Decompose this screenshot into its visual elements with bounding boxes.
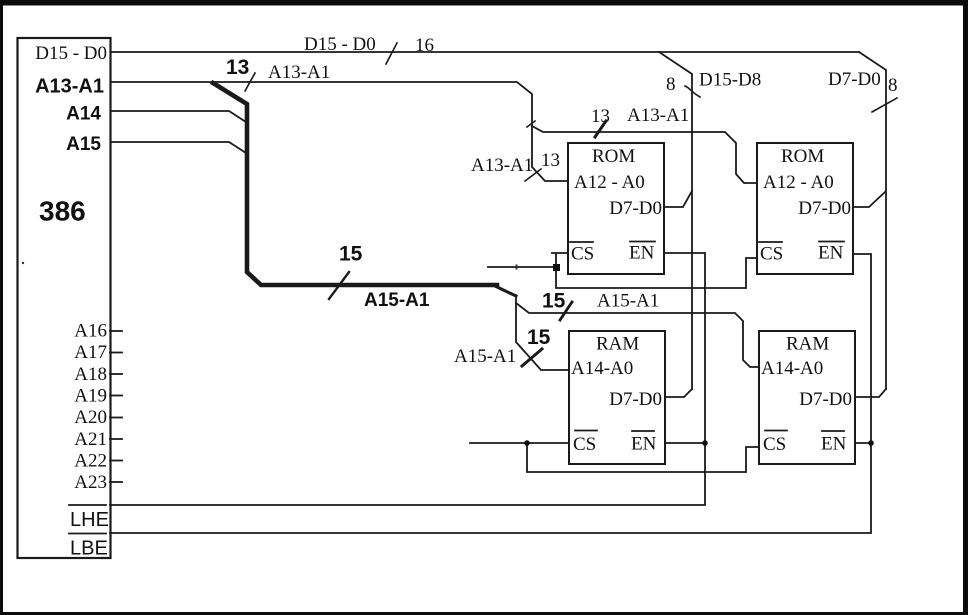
- svg-text:A14-A0: A14-A0: [571, 358, 633, 379]
- svg-text:A16: A16: [74, 321, 107, 342]
- svg-text:16: 16: [415, 35, 434, 56]
- svg-text:A23: A23: [74, 472, 107, 493]
- svg-text:D7-D0: D7-D0: [828, 69, 881, 90]
- svg-text:A20: A20: [74, 407, 107, 428]
- svg-text:EN: EN: [818, 243, 844, 264]
- svg-text:CS: CS: [760, 244, 783, 265]
- svg-text:RAM: RAM: [596, 334, 639, 355]
- svg-text:15: 15: [527, 326, 551, 349]
- svg-text:A13-A1: A13-A1: [471, 155, 533, 176]
- svg-text:8: 8: [666, 74, 676, 95]
- svg-text:A12 - A0: A12 - A0: [574, 172, 645, 193]
- svg-text:D7-D0: D7-D0: [799, 389, 852, 410]
- svg-text:LHE: LHE: [70, 509, 109, 531]
- svg-text:A15: A15: [66, 134, 101, 155]
- svg-text:D15 - D0: D15 - D0: [304, 34, 376, 55]
- svg-text:D7-D0: D7-D0: [798, 198, 851, 219]
- svg-text:A22: A22: [74, 450, 107, 471]
- svg-text:A19: A19: [74, 386, 107, 407]
- svg-text:A13-A1: A13-A1: [268, 62, 330, 83]
- svg-text:D15-D8: D15-D8: [699, 70, 761, 91]
- svg-text:ROM: ROM: [781, 146, 824, 167]
- svg-text:13: 13: [541, 150, 560, 171]
- svg-text:8: 8: [888, 75, 898, 96]
- svg-text:EN: EN: [631, 434, 657, 455]
- svg-text:CS: CS: [573, 434, 596, 455]
- svg-text:13: 13: [226, 56, 249, 79]
- svg-text:A21: A21: [74, 429, 107, 450]
- svg-text:A17: A17: [74, 342, 107, 363]
- svg-text:A14: A14: [66, 104, 101, 125]
- svg-text:EN: EN: [629, 243, 655, 264]
- svg-text:A18: A18: [74, 364, 107, 385]
- svg-text:D7-D0: D7-D0: [609, 198, 662, 219]
- svg-text:13: 13: [591, 106, 610, 127]
- svg-text:A13-A1: A13-A1: [35, 76, 104, 98]
- svg-text:D7-D0: D7-D0: [609, 389, 662, 410]
- svg-text:D15 - D0: D15 - D0: [35, 43, 107, 64]
- svg-text:CS: CS: [763, 434, 786, 455]
- svg-text:386: 386: [39, 196, 86, 227]
- svg-text:A15-A1: A15-A1: [364, 290, 430, 311]
- svg-text:A15-A1: A15-A1: [597, 291, 659, 312]
- svg-text:A15-A1: A15-A1: [454, 346, 516, 367]
- svg-text:CS: CS: [571, 244, 594, 265]
- svg-text:A13-A1: A13-A1: [627, 105, 689, 126]
- svg-text:LBE: LBE: [70, 538, 108, 560]
- svg-text:EN: EN: [821, 434, 847, 455]
- svg-text:ROM: ROM: [592, 146, 635, 167]
- svg-text:A14-A0: A14-A0: [761, 358, 823, 379]
- svg-text:15: 15: [542, 290, 566, 313]
- svg-text:15: 15: [339, 243, 363, 266]
- svg-text:A12 - A0: A12 - A0: [763, 172, 834, 193]
- svg-text:RAM: RAM: [786, 334, 829, 355]
